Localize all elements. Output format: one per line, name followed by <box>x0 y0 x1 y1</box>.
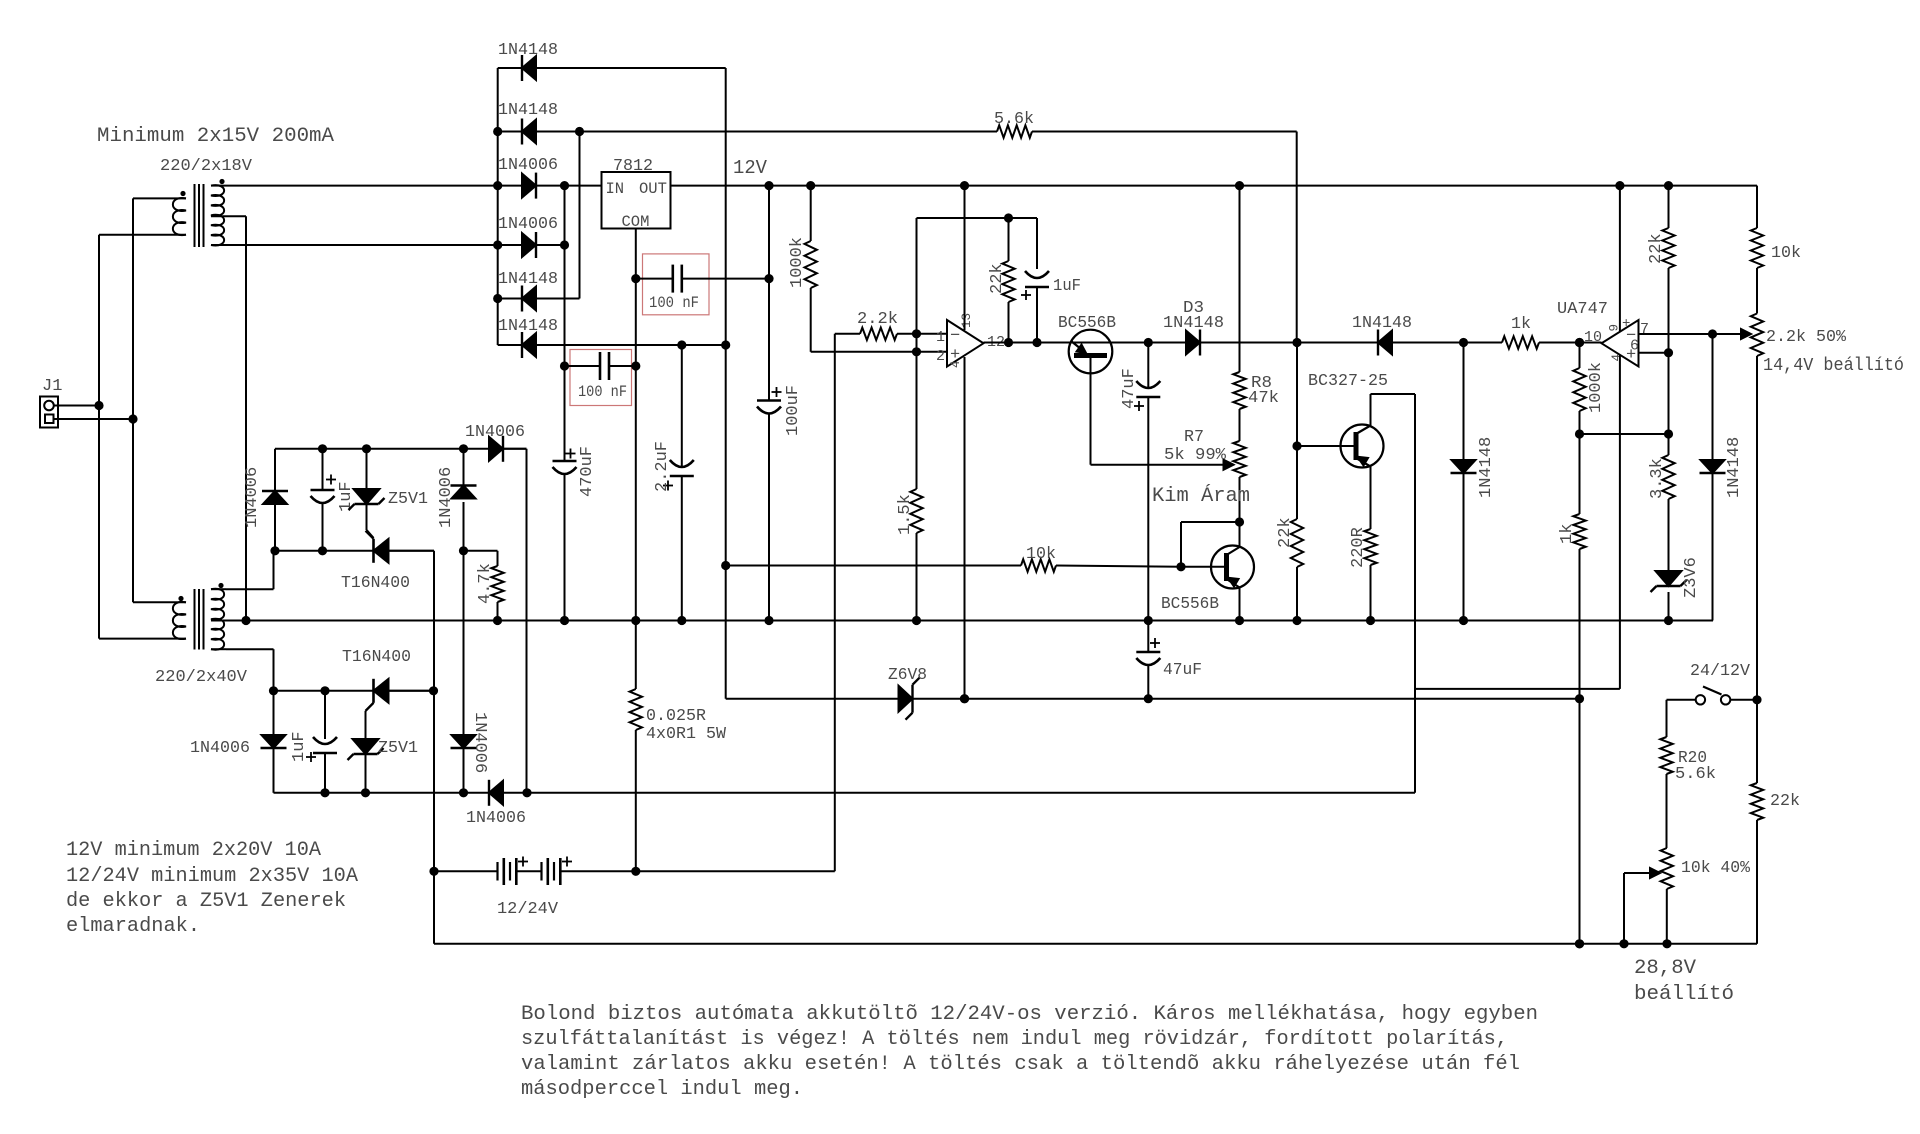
resistor R 1.5k <box>910 489 922 533</box>
node C2 left <box>560 361 569 370</box>
wire 434 crosslink <box>1580 433 1669 435</box>
wire lower bus 700 <box>726 698 1580 700</box>
svg-text:100uF: 100uF <box>784 385 803 436</box>
wire COM vertical <box>635 229 637 690</box>
wire thy1 anode <box>389 550 435 552</box>
svg-text:14,4V beállító: 14,4V beállító <box>1763 355 1904 376</box>
svg-text:22k: 22k <box>1770 792 1800 811</box>
wire J1 pin1 to primary bus <box>54 405 99 407</box>
svg-text:J1: J1 <box>42 377 62 396</box>
thyristor T16N400 upper <box>372 539 375 563</box>
node aux691 left <box>269 686 278 695</box>
diode D4b 1N4148 <box>1377 330 1379 356</box>
svg-text:Z3V6: Z3V6 <box>1682 557 1701 598</box>
wire x916 vertical <box>916 218 918 489</box>
svg-text:BC556B: BC556B <box>1161 595 1219 614</box>
svg-text:22k: 22k <box>1647 233 1666 264</box>
svg-text:COM: COM <box>622 213 650 231</box>
wire 47uF-a vertical <box>1147 343 1149 389</box>
node 10k left <box>721 561 730 570</box>
svg-text:1k: 1k <box>1558 524 1577 544</box>
node 22k-right top <box>1664 181 1673 190</box>
wire d1n4148r vertical <box>1463 343 1465 621</box>
svg-text:BC556B: BC556B <box>1058 314 1116 333</box>
capacitor C4 2.2uF <box>670 475 694 478</box>
node D6-2.2uF <box>677 340 686 349</box>
node 22k-b bottom bus <box>1292 616 1301 625</box>
svg-text:1: 1 <box>936 329 945 346</box>
capacitor C9 1uF <box>322 449 324 490</box>
node 4.7k bottom <box>493 616 502 625</box>
svg-text:12V minimum 2x20V 10A: 12V minimum 2x20V 10A <box>66 839 322 862</box>
svg-text:Z5V1: Z5V1 <box>378 739 418 758</box>
resistor R 220R <box>1370 467 1372 530</box>
wire primary right vertical <box>132 198 134 602</box>
node aux793-1uF <box>320 788 329 797</box>
wiper arrow 10k pot <box>1623 873 1625 944</box>
node aux793-z5v1 <box>361 788 370 797</box>
wire aux rail 551 <box>275 550 434 552</box>
wire pin6 stub <box>1639 352 1669 354</box>
svg-text:valamint zárlatos akku esetén!: valamint zárlatos akku esetén! A töltés … <box>521 1053 1520 1076</box>
resistor R 3.3k <box>1662 455 1674 499</box>
transformer T2 220/2x40V <box>99 583 226 650</box>
node Q2 base junction <box>1176 562 1185 571</box>
resistor R 0.025R <box>630 689 642 730</box>
svg-text:1N4006: 1N4006 <box>465 423 525 442</box>
capacitor C6 1uF <box>1036 218 1038 269</box>
node pin1 <box>912 329 921 338</box>
node C4 bottom bus <box>677 616 686 625</box>
diode D8 1N4006 <box>463 449 465 486</box>
plus C4 <box>663 485 673 487</box>
svg-text:−: − <box>950 327 960 346</box>
node out-47uF <box>1144 338 1153 347</box>
wiper arrow R7 <box>1224 460 1234 470</box>
svg-text:1N4006: 1N4006 <box>437 467 456 528</box>
node R7 bottom junction <box>1235 517 1244 526</box>
transformer T1 220/2x18V <box>99 179 246 247</box>
node opamp1 V+ top <box>960 181 969 190</box>
node 1000k-1k junction <box>1575 429 1584 438</box>
svg-text:47k: 47k <box>1248 389 1279 408</box>
svg-text:7812: 7812 <box>613 157 653 176</box>
zener Z6V8 <box>899 686 913 712</box>
node C7 bus 620 <box>1144 616 1153 625</box>
resistor R 22k-a <box>1008 218 1010 261</box>
node battery tap <box>429 867 438 876</box>
wire 22k-b vertical <box>1296 343 1298 520</box>
zener Z3V6 <box>1656 571 1682 586</box>
node Q2 collector bus <box>1235 616 1244 625</box>
plus battery cell2 <box>562 861 572 863</box>
svg-text:7: 7 <box>1640 321 1649 338</box>
node T1 midtap joins <box>241 616 250 625</box>
svg-text:2.2k: 2.2k <box>857 310 898 329</box>
svg-text:1N4148: 1N4148 <box>1477 437 1496 498</box>
svg-text:4x0R1 5W: 4x0R1 5W <box>646 725 727 744</box>
node 100uF top <box>764 181 773 190</box>
connector J1 <box>40 397 58 428</box>
node D5 left <box>493 294 502 303</box>
node C2 right <box>631 361 640 370</box>
zener Z5V1 lower <box>366 703 374 711</box>
node 220R bottom bus <box>1366 616 1375 625</box>
wire aux rail 449 <box>275 448 527 450</box>
svg-text:13: 13 <box>960 313 974 328</box>
plus C8 <box>1150 642 1160 644</box>
svg-text:5.6k: 5.6k <box>1675 765 1716 784</box>
svg-text:220/2x40V: 220/2x40V <box>155 668 248 687</box>
diode D9 1N4006 <box>502 436 504 462</box>
plus C3 <box>566 453 576 455</box>
svg-text:4: 4 <box>949 360 963 368</box>
capacitor C2 100nF box <box>570 350 632 406</box>
node out-d1n4148r <box>1459 338 1468 347</box>
capacitor C1 100nF box <box>643 254 710 315</box>
svg-text:12/24V: 12/24V <box>497 900 559 919</box>
wire thy vertical 434 <box>433 551 435 944</box>
regulator U2 7812 box <box>602 172 671 229</box>
wire Q1 base to R7 wiper <box>1091 464 1227 466</box>
svg-text:1uF: 1uF <box>337 481 356 512</box>
wire pin1 stub <box>917 333 948 335</box>
potentiometer R7 5k <box>1233 441 1245 477</box>
node aux691-1uF <box>320 686 329 695</box>
wire diode ladder left rail <box>497 68 499 345</box>
resistor R8 47k <box>1239 186 1241 372</box>
capacitor C7 47uF <box>1136 396 1160 399</box>
wire T2 sec top up <box>226 588 274 590</box>
node 1000k bottom <box>1575 939 1584 948</box>
svg-text:6: 6 <box>1630 338 1639 355</box>
node pin7-d1n4148rr <box>1708 329 1717 338</box>
node aux449-1uF <box>318 444 327 453</box>
diode D8b 1N4006 lower <box>451 747 477 749</box>
potentiometer 2.2k 50% <box>1751 314 1763 357</box>
op-amp U1B UA747 <box>1602 320 1639 367</box>
wire Q2 base L <box>1181 521 1240 523</box>
svg-text:220/2x18V: 220/2x18V <box>160 157 253 176</box>
plus C7 <box>1134 405 1144 407</box>
thyristor T16N400 lower <box>372 679 375 703</box>
svg-text:1N4148: 1N4148 <box>498 41 558 60</box>
wire 1000k-right chain <box>1579 343 1581 369</box>
wire aux rail 691 <box>274 690 434 692</box>
wire 4.7k link <box>464 550 498 552</box>
svg-text:1N4148: 1N4148 <box>498 317 558 336</box>
node switch right <box>1752 695 1761 704</box>
diode D4 1N4006 <box>535 232 537 258</box>
wire pin2 stub <box>917 351 948 353</box>
node COM-100nF <box>631 274 640 283</box>
svg-text:Kim Áram: Kim Áram <box>1152 484 1250 508</box>
svg-text:470uF: 470uF <box>578 446 597 497</box>
diode D6b 1N4148 <box>1700 472 1726 474</box>
node out-22k <box>1004 338 1013 347</box>
svg-text:5k 99%: 5k 99% <box>1164 446 1227 465</box>
resistor R 4.7k <box>497 551 499 566</box>
node C1 right <box>764 274 773 283</box>
node C7 bus 700 <box>1144 694 1153 703</box>
wire bottom rail <box>434 943 1757 945</box>
svg-text:12V: 12V <box>733 157 768 179</box>
node C3 bottom bus <box>560 616 569 625</box>
svg-text:UA747: UA747 <box>1557 300 1608 319</box>
wire U1A V+ pin13 <box>964 186 966 330</box>
svg-text:OUT: OUT <box>639 180 667 198</box>
svg-text:22k: 22k <box>988 263 1007 294</box>
transistor Q3 BC327-25 <box>1297 425 1384 468</box>
svg-text:másodperccel indul meg.: másodperccel indul meg. <box>521 1078 803 1101</box>
wire Q3 emitter up-over <box>1370 394 1372 426</box>
svg-text:1000k: 1000k <box>788 237 807 288</box>
diode D1 1N4148 <box>498 67 522 69</box>
diode D3b 1N4148 <box>1199 330 1201 356</box>
node opamp2 V+ top <box>1615 181 1624 190</box>
node bottom-pot <box>1662 939 1671 948</box>
wire 5.6k to output <box>1296 132 1298 343</box>
svg-text:1k: 1k <box>1511 315 1531 334</box>
plus C9 <box>326 479 336 481</box>
node Z6V8 right pin4 <box>960 694 969 703</box>
node D3 left <box>493 181 502 190</box>
diode D2 1N4148 <box>498 131 522 133</box>
svg-text:3.3k: 3.3k <box>1648 458 1667 499</box>
wire U1B V- pin4 <box>1619 355 1621 689</box>
resistor R 10k <box>726 565 1021 567</box>
wire neg link 689 <box>1415 688 1620 690</box>
resistor R 1k right <box>1573 514 1585 549</box>
svg-text:1N4148: 1N4148 <box>1163 314 1224 333</box>
svg-text:de ekkor a Z5V1 Zenerek: de ekkor a Z5V1 Zenerek <box>66 890 346 913</box>
svg-text:47uF: 47uF <box>1120 368 1139 409</box>
node 1000k-left top <box>806 181 815 190</box>
svg-text:1uF: 1uF <box>290 731 309 762</box>
capacitor C3 470uF <box>553 460 577 463</box>
svg-text:1uF: 1uF <box>1053 277 1081 296</box>
svg-text:Minimum 2x15V 200mA: Minimum 2x15V 200mA <box>97 125 335 148</box>
node R8 top <box>1235 181 1244 190</box>
op-amp U1A UA747 <box>947 320 984 367</box>
svg-text:100 nF: 100 nF <box>649 294 699 312</box>
transistor Q1 BC556B <box>1069 330 1113 465</box>
wire U1A V- pin4 <box>964 357 966 699</box>
node 1.5k bottom bus <box>912 616 921 625</box>
plus C6 <box>1021 294 1031 296</box>
node 22k top <box>1004 213 1013 222</box>
svg-text:beállító: beállító <box>1634 983 1734 1006</box>
svg-text:220R: 220R <box>1349 527 1368 568</box>
svg-text:1N4148: 1N4148 <box>1725 437 1744 498</box>
wire 22k-c chain <box>1668 186 1670 228</box>
node pin6-22k <box>1664 348 1673 357</box>
svg-text:10k: 10k <box>1771 244 1801 263</box>
wire T1 sec top to IN <box>222 185 602 187</box>
svg-text:1N4148: 1N4148 <box>1352 314 1412 333</box>
svg-text:1000k: 1000k <box>1587 362 1606 413</box>
svg-text:2.2uF: 2.2uF <box>653 441 672 492</box>
wire 12V rail <box>671 185 1758 187</box>
plus C10 <box>306 756 316 758</box>
wire 2.2k to battery sense <box>834 334 836 872</box>
svg-text:1N4148: 1N4148 <box>498 101 558 120</box>
resistor R20 5.6k <box>1666 700 1668 737</box>
node out-1uF <box>1032 338 1041 347</box>
svg-text:2: 2 <box>936 348 945 365</box>
resistor R 5.6k <box>580 131 998 133</box>
svg-text:1N4006: 1N4006 <box>498 215 558 234</box>
svg-text:2.2k 50%: 2.2k 50% <box>1766 328 1847 347</box>
svg-text:T16N400: T16N400 <box>342 648 411 667</box>
node crosslink right <box>1664 429 1673 438</box>
node 22k-b base junction <box>1292 441 1301 450</box>
node secondary-top / x564 <box>560 181 569 190</box>
svg-text:10: 10 <box>1584 329 1602 346</box>
wiper arrow 2.2k pot <box>1741 329 1751 339</box>
svg-text:Z5V1: Z5V1 <box>388 490 428 509</box>
svg-text:10k: 10k <box>1026 545 1056 564</box>
svg-text:0.025R: 0.025R <box>646 707 706 726</box>
node aux551 left <box>270 546 279 555</box>
capacitor C5 100uF <box>757 399 781 402</box>
node out-5.6k-22kb <box>1292 338 1301 347</box>
svg-text:24/12V: 24/12V <box>1690 662 1751 681</box>
node bottom-wiper <box>1619 939 1628 948</box>
wire aux rail 793 <box>274 792 1416 794</box>
resistor R 2.2k <box>835 333 860 335</box>
diode D10 1N4006 <box>273 691 275 735</box>
node pin10 <box>1575 338 1584 347</box>
wire 100uF vertical <box>768 186 770 401</box>
svg-text:elmaradnak.: elmaradnak. <box>66 915 200 938</box>
node pin2 <box>912 347 921 356</box>
svg-text:IN: IN <box>606 180 625 198</box>
svg-text:47uF: 47uF <box>1163 661 1202 680</box>
svg-text:1N4006: 1N4006 <box>498 156 558 175</box>
node 1000k bus700 <box>1575 694 1584 703</box>
node aux449-z5v1 <box>362 444 371 453</box>
wire T1 midtap vertical <box>245 216 247 620</box>
node aux551-1uF <box>318 546 327 555</box>
wire T2 sec bottom down <box>226 648 274 650</box>
node D6 right <box>721 340 730 349</box>
svg-text:1N4006: 1N4006 <box>190 739 250 758</box>
svg-text:1N4006: 1N4006 <box>470 712 489 773</box>
node aux449-x463 <box>459 444 468 453</box>
plus C5 <box>772 391 782 393</box>
node aux793-x526 <box>522 788 531 797</box>
capacitor C8 47uF <box>1136 651 1160 654</box>
svg-text:22k: 22k <box>1276 517 1295 548</box>
wire T1 sec bottom to x564 <box>225 244 565 246</box>
wire midtap bus <box>211 620 1713 622</box>
wire x564 vertical <box>564 186 566 461</box>
wire D2-D5 vertical <box>579 132 581 299</box>
svg-text:1N4006: 1N4006 <box>466 809 526 828</box>
diode D3 1N4006 <box>535 173 537 199</box>
capacitor C1 100nF <box>636 278 673 280</box>
svg-text:1N4006: 1N4006 <box>243 467 262 528</box>
svg-text:12/24V minimum 2x35V 10A: 12/24V minimum 2x35V 10A <box>66 865 359 888</box>
svg-text:BC327-25: BC327-25 <box>1308 372 1388 391</box>
svg-text:1N4148: 1N4148 <box>498 270 558 289</box>
svg-text:4.7k: 4.7k <box>476 563 495 604</box>
wire pin7 to wiper <box>1639 333 1747 335</box>
wire U1A output <box>984 342 1503 344</box>
wire thy2 anode <box>389 690 434 692</box>
transistor Q2 BC556B <box>1181 522 1254 621</box>
node aux793-x463 <box>459 788 468 797</box>
wire 22k/1uF top <box>917 217 1038 219</box>
node D4 right <box>560 240 569 249</box>
capacitor C10 1uF <box>324 691 326 739</box>
node out-1000k <box>1575 338 1584 347</box>
svg-text:28,8V: 28,8V <box>1634 957 1697 980</box>
node aux691 right <box>429 686 438 695</box>
svg-text:R7: R7 <box>1184 428 1204 447</box>
svg-text:T16N400: T16N400 <box>341 574 410 593</box>
diode D5b 1N4148 <box>1451 472 1477 474</box>
node shunt battery <box>631 867 640 876</box>
node D8-4.7k <box>459 546 468 555</box>
potentiometer 10k 40% <box>1661 848 1673 889</box>
node D4 left <box>493 240 502 249</box>
wire 10k-right <box>1756 186 1758 228</box>
zener Z5V1 upper <box>366 449 368 489</box>
diode D6 1N4148 <box>498 344 522 346</box>
svg-text:Bolond biztos autómata akkutöl: Bolond biztos autómata akkutöltõ 12/24V-… <box>521 1003 1538 1026</box>
svg-text:Z6V8: Z6V8 <box>888 666 927 685</box>
capacitor C2 100nF <box>565 365 601 367</box>
wire J1 pin2 to primary bus <box>54 418 133 420</box>
node z3v6 bottom bus <box>1664 616 1673 625</box>
svg-text:10k 40%: 10k 40% <box>1681 859 1751 878</box>
wire 2.2uF vertical <box>681 345 683 466</box>
node C5 bottom bus <box>764 616 773 625</box>
wire 1000k-left/pin2 <box>810 186 812 241</box>
node bottom-1579 <box>1575 939 1584 948</box>
resistor R 1k mid <box>1502 336 1539 348</box>
switch 24/12V <box>1667 699 1696 701</box>
diode D5 1N4148 <box>498 298 522 300</box>
diode D11 1N4006 <box>488 780 490 806</box>
node COM bus <box>631 616 640 625</box>
wire d1n4148rr vertical <box>1712 334 1714 621</box>
node pin4 bottom <box>960 694 969 703</box>
node d1n4148r bottom bus <box>1459 616 1468 625</box>
wire D9 to x526 <box>503 448 527 450</box>
wire diode ladder right vertical <box>725 68 727 699</box>
node D2 left <box>493 127 502 136</box>
node D2 right <box>575 127 584 136</box>
wire primary left vertical <box>98 235 100 639</box>
svg-text:4: 4 <box>1610 354 1624 362</box>
svg-text:100 nF: 100 nF <box>578 383 627 401</box>
diode D7 1N4006 <box>274 449 276 491</box>
wire U1B V+ pin9 <box>1619 186 1621 331</box>
wire 22k-d right <box>1756 820 1758 944</box>
svg-text:szulfáttalanítást is végez! A: szulfáttalanítást is végez! A töltés nem… <box>521 1028 1508 1051</box>
plus battery cell1 <box>518 861 528 863</box>
svg-text:1.5k: 1.5k <box>896 494 915 535</box>
battery 12/24V <box>434 858 835 885</box>
